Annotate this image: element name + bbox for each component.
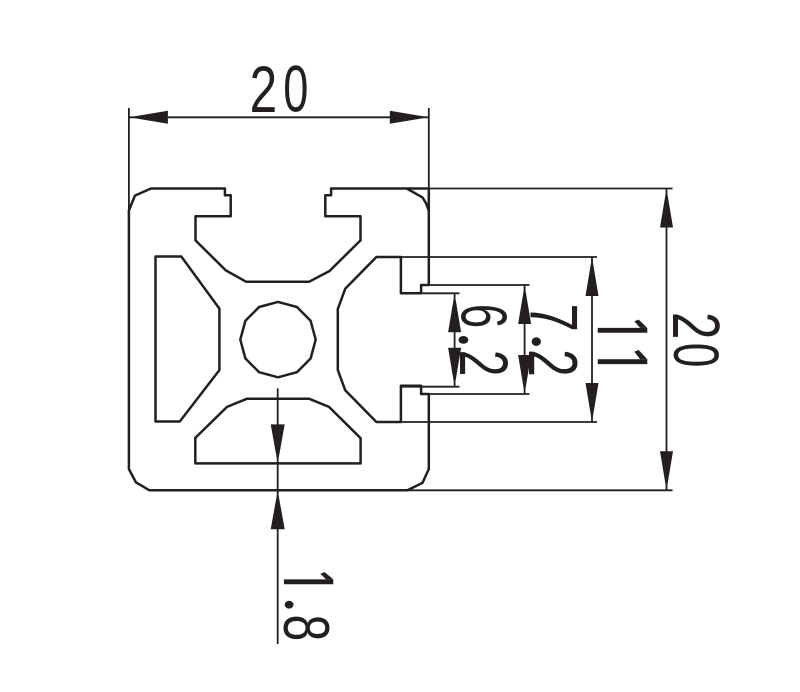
dim 6.2: arrowheads <box>448 293 461 332</box>
dim 6.2: top extension line <box>401 292 460 294</box>
svg-text:7: 7 <box>516 304 592 332</box>
top-right corner fillet <box>407 189 429 211</box>
svg-text:0: 0 <box>660 343 732 368</box>
svg-text:6: 6 <box>447 304 520 328</box>
dim 6.2: bottom extension line <box>401 386 460 388</box>
dim 11: bottom extension line <box>401 421 597 423</box>
bottom cavity <box>195 399 360 464</box>
dim 20 top: arrowheads <box>129 111 168 124</box>
dim 20 top: dimension line <box>129 116 429 118</box>
svg-text:2: 2 <box>658 312 732 339</box>
profile outline <box>129 189 429 491</box>
dim 7.2: top extension line <box>421 284 529 286</box>
dim 11: arrowheads <box>586 257 599 296</box>
dim 11: dimension line <box>591 257 593 422</box>
dim 20 right: top extension line <box>429 188 673 190</box>
dim 1.8: arrowheads <box>271 424 285 463</box>
dim 20 right: arrowheads <box>660 189 673 228</box>
dim 20 right: bottom extension line <box>407 489 672 491</box>
dim 7.2: arrowheads <box>518 285 531 324</box>
dim 7.2: dimension line <box>524 285 526 394</box>
dim 6.2: dimension line <box>454 293 456 386</box>
svg-text:2: 2 <box>445 350 521 377</box>
dim 1.8: leader line <box>277 388 279 644</box>
dim 7.2: bottom extension line <box>421 393 529 395</box>
dim 20 top: right extension line <box>428 108 430 190</box>
center hole <box>240 302 315 377</box>
svg-text:0: 0 <box>283 52 308 125</box>
left cavity <box>156 257 220 422</box>
dim 11: top extension line <box>401 256 597 258</box>
dim 20 top: left extension line <box>128 108 130 211</box>
dim text 11 <box>598 328 648 333</box>
svg-text:8: 8 <box>269 614 342 641</box>
svg-text:2: 2 <box>250 53 278 127</box>
dim 20 right: dimension line <box>666 189 668 491</box>
dim text 1.8 <box>284 579 333 584</box>
svg-text:2: 2 <box>514 349 591 377</box>
